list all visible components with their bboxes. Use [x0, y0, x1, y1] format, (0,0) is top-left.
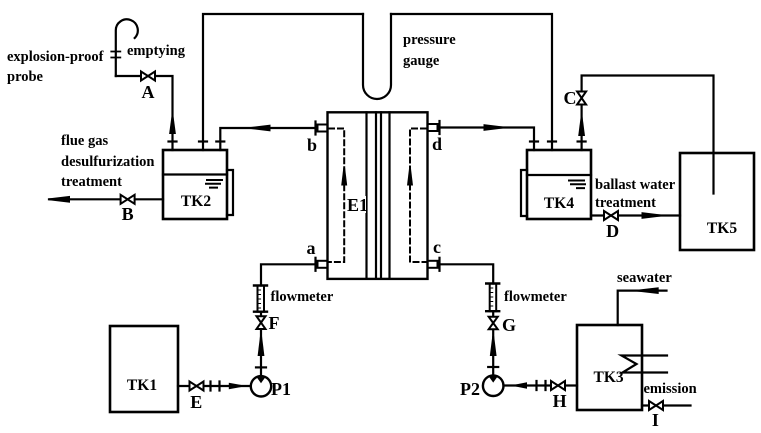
port b flange tick [314, 122, 316, 135]
flange TK4 pipe d [530, 140, 538, 142]
arrow right on d pipe [484, 124, 505, 131]
label E1 [346, 196, 366, 213]
svg-text:flue gas: flue gas [61, 133, 108, 149]
flange TK4 gauge pipe [548, 140, 556, 142]
wire b to TK2 [220, 128, 314, 150]
svg-text:flowmeter: flowmeter [504, 289, 567, 305]
wire TK1 to P1 [178, 385, 251, 387]
wire d to TK4 [441, 128, 534, 151]
pump P2 [483, 375, 504, 396]
union ticks E line [211, 382, 220, 391]
svg-text:P2: P2 [460, 379, 480, 399]
union ticks H line [537, 381, 546, 390]
tank TK2 [163, 150, 227, 219]
svg-text:treatment: treatment [595, 195, 656, 211]
unit E1 internal plates [367, 112, 390, 279]
svg-text:TK5: TK5 [707, 220, 737, 237]
flange TK2 gauge pipe [199, 140, 207, 142]
svg-text:H: H [553, 391, 567, 411]
probe union fitting [111, 52, 120, 58]
flange TK2 pipe A [169, 140, 177, 142]
svg-text:d: d [432, 134, 442, 154]
flowmeter G graduations [491, 288, 493, 306]
arrow up on C pipe [578, 117, 585, 137]
svg-text:C: C [564, 88, 577, 108]
svg-text:TK1: TK1 [127, 377, 157, 394]
svg-text:gauge: gauge [403, 53, 440, 69]
wire TK3 emission line [642, 404, 691, 406]
tank TK4 [527, 150, 591, 219]
tank TK2 level mark [206, 180, 222, 188]
arrow up on emptying pipe [169, 116, 176, 135]
svg-text:E1: E1 [347, 195, 368, 215]
valve I [649, 401, 663, 410]
arrow left on B pipe [49, 196, 70, 203]
pump P1 [251, 376, 271, 396]
wire TK3 seawater inlet [618, 291, 667, 325]
tank TK3 [577, 325, 642, 410]
port a nozzle [318, 261, 328, 268]
pump P1 direction triangle [257, 377, 266, 383]
valve C [577, 92, 586, 105]
tank TK4 level mark [569, 181, 585, 189]
svg-text:P1: P1 [271, 379, 291, 399]
dashed flow path right [410, 129, 426, 263]
svg-text:probe: probe [7, 69, 44, 85]
wire a to flowmeter F column [261, 264, 314, 285]
valve A [141, 72, 155, 81]
flowmeter F body [254, 286, 267, 312]
svg-text:A: A [142, 82, 155, 102]
wire flowmeter G to P2 [492, 311, 494, 375]
port a flange tick [314, 258, 316, 271]
arrow up on P2 outlet [490, 336, 497, 356]
svg-text:pressure: pressure [403, 32, 456, 48]
pump P2 direction triangle [489, 377, 498, 383]
arrow right on D pipe [642, 212, 663, 219]
svg-text:E: E [190, 392, 202, 412]
wire P2 to TK3 [504, 384, 578, 386]
wire c to flowmeter G column [441, 264, 493, 283]
svg-text:I: I [652, 410, 659, 430]
svg-text:D: D [606, 221, 619, 241]
valve E [190, 382, 204, 391]
arrow right on E line [229, 383, 242, 389]
probe hook [116, 19, 138, 76]
valve D [604, 211, 618, 220]
flowmeter G body [486, 284, 499, 312]
arrow up dashed left [341, 168, 347, 186]
tank TK5 [680, 153, 754, 250]
svg-text:a: a [307, 238, 316, 258]
flowmeter F graduations [258, 290, 260, 308]
tank TK2 side tab [227, 170, 233, 215]
dashed flow path left [329, 129, 344, 263]
tank TK4 side tab [521, 170, 527, 216]
wire TK4 to valve C to TK5 [582, 76, 714, 194]
heating coil TK3 [622, 356, 668, 373]
wire pressure-gauge loop top [203, 14, 552, 150]
pressure gauge U-tube [363, 14, 391, 99]
svg-text:b: b [307, 135, 317, 155]
arrow left on seawater line [637, 287, 659, 294]
svg-text:flowmeter: flowmeter [271, 289, 334, 305]
svg-text:c: c [433, 237, 441, 257]
svg-text:emptying: emptying [127, 43, 186, 59]
port b nozzle [318, 125, 328, 132]
wire TK4 to TK5 D line [591, 214, 680, 216]
wire TK2 emptying pipe [116, 76, 173, 150]
port c nozzle [428, 261, 438, 268]
arrow left on H line [515, 382, 527, 388]
svg-text:explosion-proof: explosion-proof [7, 49, 104, 65]
svg-text:B: B [122, 204, 134, 224]
arrow up dashed right [407, 168, 413, 186]
wire flowmeter F to valve F [260, 312, 262, 377]
svg-text:TK3: TK3 [594, 369, 624, 386]
svg-text:seawater: seawater [617, 270, 672, 286]
valve F [257, 316, 266, 329]
flange TK2 pipe b [216, 140, 224, 142]
svg-text:TK2: TK2 [181, 193, 211, 210]
svg-text:ballast water: ballast water [595, 177, 676, 193]
valve G [489, 317, 498, 329]
port c flange tick [438, 258, 440, 271]
valve H [551, 381, 565, 390]
svg-text:treatment: treatment [61, 174, 122, 190]
valve B [121, 195, 135, 204]
svg-text:TK4: TK4 [544, 195, 574, 212]
flange tick P1 outlet [256, 366, 266, 368]
port d flange tick [438, 121, 440, 134]
unit E1 box [328, 112, 428, 279]
arrow left on b pipe [250, 125, 271, 132]
port d nozzle [428, 124, 438, 131]
svg-text:F: F [269, 313, 280, 333]
flange tick P2 outlet [488, 366, 498, 368]
tank TK1 [110, 326, 178, 412]
svg-text:emission: emission [644, 381, 697, 397]
arrow up on P1 outlet [258, 336, 265, 357]
svg-text:desulfurization: desulfurization [61, 154, 154, 170]
wire TK2 outlet B [49, 198, 163, 200]
flange TK4 pipe C [578, 140, 586, 142]
svg-text:G: G [502, 315, 516, 335]
